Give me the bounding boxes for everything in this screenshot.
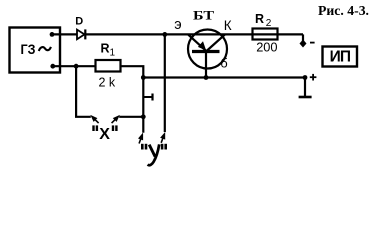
svg-text:D: D	[75, 16, 83, 28]
arrowhead x right	[110, 113, 122, 125]
junction dot rail corner	[141, 75, 146, 80]
wire R2 right corner down	[302, 34, 304, 42]
terminal dot bottom of ГЗ	[50, 64, 55, 69]
svg-text:Рис. 4-3.: Рис. 4-3.	[318, 4, 369, 19]
svg-text:R: R	[255, 12, 264, 26]
arrowhead y left	[137, 132, 146, 145]
wire x-y branch vertical	[142, 78, 144, 133]
wire diode to minus corner	[85, 33, 303, 35]
svg-text:ИП: ИП	[330, 49, 351, 66]
svg-text:К: К	[224, 18, 232, 33]
transistor base wire	[205, 51, 207, 77]
label plus	[310, 76, 317, 78]
svg-text:200: 200	[256, 39, 277, 54]
meter box ИП	[323, 47, 358, 67]
tilde symbol	[39, 47, 51, 51]
transistor emitter diagonal	[188, 34, 206, 50]
label y letter	[149, 145, 155, 157]
label y opening quote	[141, 144, 144, 150]
chassis stub middle	[143, 96, 152, 98]
label minus	[310, 42, 315, 44]
svg-text:ГЗ: ГЗ	[21, 41, 36, 57]
svg-text:1: 1	[110, 47, 116, 58]
svg-text:R: R	[101, 42, 110, 56]
transistor БТ circle	[188, 30, 227, 69]
label x opening quote	[92, 125, 94, 131]
emitter arrowhead	[198, 41, 206, 50]
rail end dot plus terminal	[303, 75, 308, 80]
wire x left branch	[76, 66, 91, 117]
diode D	[77, 30, 85, 40]
junction dot x branch	[74, 64, 79, 69]
node junction on top wire	[162, 32, 167, 37]
wire ГЗ bottom to R1	[53, 65, 96, 67]
wire x right stub	[119, 116, 143, 118]
resistor R2	[253, 29, 278, 40]
terminal dot top of ГЗ	[50, 32, 55, 37]
label y closing quote	[161, 144, 164, 150]
bottom rail wire	[143, 76, 305, 78]
junction dot x node	[141, 114, 146, 119]
arrowhead x left	[88, 113, 100, 125]
svg-text:э: э	[174, 17, 181, 33]
minus terminal diamond dot	[300, 40, 307, 48]
chassis stub right	[304, 78, 306, 98]
wire R1 to rail corner	[121, 66, 144, 77]
svg-text:б: б	[220, 55, 227, 70]
svg-text:2: 2	[266, 18, 272, 29]
transistor collector diagonal	[207, 34, 226, 51]
transistor base bar	[192, 50, 220, 53]
generator box ГЗ	[10, 28, 61, 73]
junction dot base on rail	[204, 75, 209, 80]
wire ГЗ top to diode	[52, 33, 78, 35]
arrowhead y right	[159, 131, 168, 144]
label x closing quote	[112, 125, 114, 131]
wire vertical to y right arrow	[164, 34, 166, 132]
resistor R1	[96, 60, 121, 72]
svg-text:2 k: 2 k	[99, 76, 116, 90]
svg-text:БТ: БТ	[193, 8, 215, 22]
svg-text:Х: Х	[99, 126, 110, 143]
